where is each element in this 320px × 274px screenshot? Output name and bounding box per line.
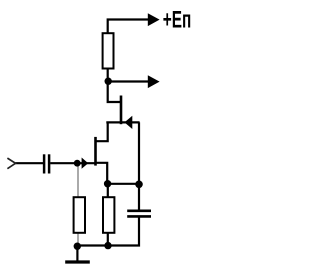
wire VT2 gate down through source node to capacitor C2 [138,122,140,210]
arrow VT2 gate (N-channel) [125,116,133,129]
node ground junction dot [74,243,81,250]
node source junction dot right [135,181,143,189]
wire drain resistor bottom to output node and down [108,68,121,102]
capacitor C1 plate right [48,154,51,173]
arrow +En terminal [148,13,160,26]
wire source node down to resistor R3 [107,184,109,198]
wire input terminal to capacitor C1 [15,162,43,164]
node source junction dot left [104,180,111,187]
wire resistor R2 to bottom rail [77,233,79,244]
arrow VT1 gate (N-channel) [82,158,89,169]
capacitor C2 plate top [127,210,151,213]
node bottom rail junction dot [104,242,111,249]
wire VT1 gate lead [50,162,96,164]
transistor VT2 channel bar [120,96,123,125]
svg-text:+Еп: +Еп [163,6,192,33]
ground lead [76,246,78,261]
wire capacitor C2 to bottom rail [77,218,139,246]
ground bar [65,260,90,263]
transistor VT2 gate/source lead bar [106,121,139,123]
resistor R3 source bias [103,197,114,233]
wire VT1 source lead to source node [97,163,108,184]
node gate junction dot [74,160,81,167]
resistor R1 drain load [103,33,114,68]
wire resistor R3 to bottom rail [107,233,109,246]
wire +En supply rail [108,20,149,34]
transistor VT1 channel bar [94,137,97,166]
wire output node to output arrow [108,80,149,82]
capacitor C1 plate left [43,154,46,173]
arrow output terminal [148,75,160,88]
wire gate node down to resistor R2 [77,163,79,197]
wire VT2 source down to VT1 drain [96,122,108,141]
input terminal chevron [7,158,15,169]
resistor R2 gate bias [74,197,85,233]
wire source node rail [108,183,140,185]
node output junction dot [105,78,112,85]
capacitor C2 plate bottom [127,215,151,218]
